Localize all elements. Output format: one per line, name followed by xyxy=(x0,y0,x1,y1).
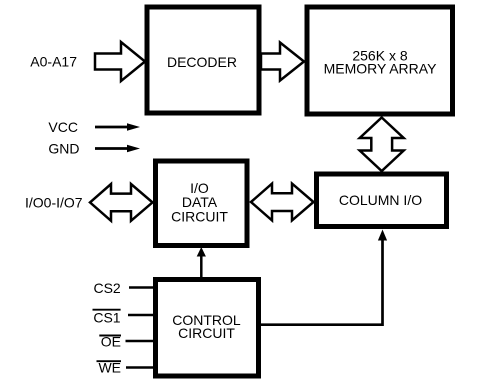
svg-text:CS1: CS1 xyxy=(93,309,120,325)
svg-text:CS2: CS2 xyxy=(93,280,120,296)
block U3 I/O DATA CIRCUIT xyxy=(156,161,248,246)
block U4 COLUMN I/O xyxy=(317,174,447,227)
svg-text:GND: GND xyxy=(48,141,79,157)
wire CS1 to CONTROL CIRCUIT xyxy=(128,314,156,317)
label CS1 (active low, overline) xyxy=(93,309,121,325)
wire CONTROL CIRCUIT to I/O DATA CIRCUIT with arrowhead xyxy=(197,247,206,278)
bus double arrow I/O DATA CIRCUIT to COLUMN I/O xyxy=(251,184,314,221)
svg-text:A0-A17: A0-A17 xyxy=(30,54,77,70)
ground arrow GND xyxy=(95,145,140,153)
wire CONTROL CIRCUIT to COLUMN I/O with arrowhead xyxy=(260,230,387,325)
label OE (active low, overline) xyxy=(99,334,121,350)
block U5 CONTROL CIRCUIT xyxy=(156,280,259,377)
svg-text:CIRCUIT: CIRCUIT xyxy=(171,209,228,225)
bus arrow DECODER to MEMORY ARRAY xyxy=(261,43,304,81)
power arrow VCC xyxy=(95,123,140,131)
bus double arrow I/O0-I/O7 to I/O DATA CIRCUIT xyxy=(90,184,153,221)
block U1 DECODER xyxy=(147,7,259,113)
svg-text:I/O0-I/O7: I/O0-I/O7 xyxy=(25,194,83,210)
label WE (active low, overline) xyxy=(97,360,122,376)
svg-text:CIRCUIT: CIRCUIT xyxy=(178,325,235,341)
wire CS2 to CONTROL CIRCUIT xyxy=(129,286,156,289)
wire WE to CONTROL CIRCUIT xyxy=(126,366,156,369)
svg-text:VCC: VCC xyxy=(48,119,78,135)
svg-text:COLUMN I/O: COLUMN I/O xyxy=(339,192,422,208)
svg-text:DECODER: DECODER xyxy=(167,54,237,70)
wire OE to CONTROL CIRCUIT xyxy=(126,340,157,343)
bus arrow A0-A17 to DECODER xyxy=(95,42,145,81)
svg-text:MEMORY ARRAY: MEMORY ARRAY xyxy=(324,61,437,77)
bus double arrow MEMORY ARRAY to COLUMN I/O xyxy=(360,118,404,172)
block U2 256K x 8 MEMORY ARRAY xyxy=(307,7,453,114)
